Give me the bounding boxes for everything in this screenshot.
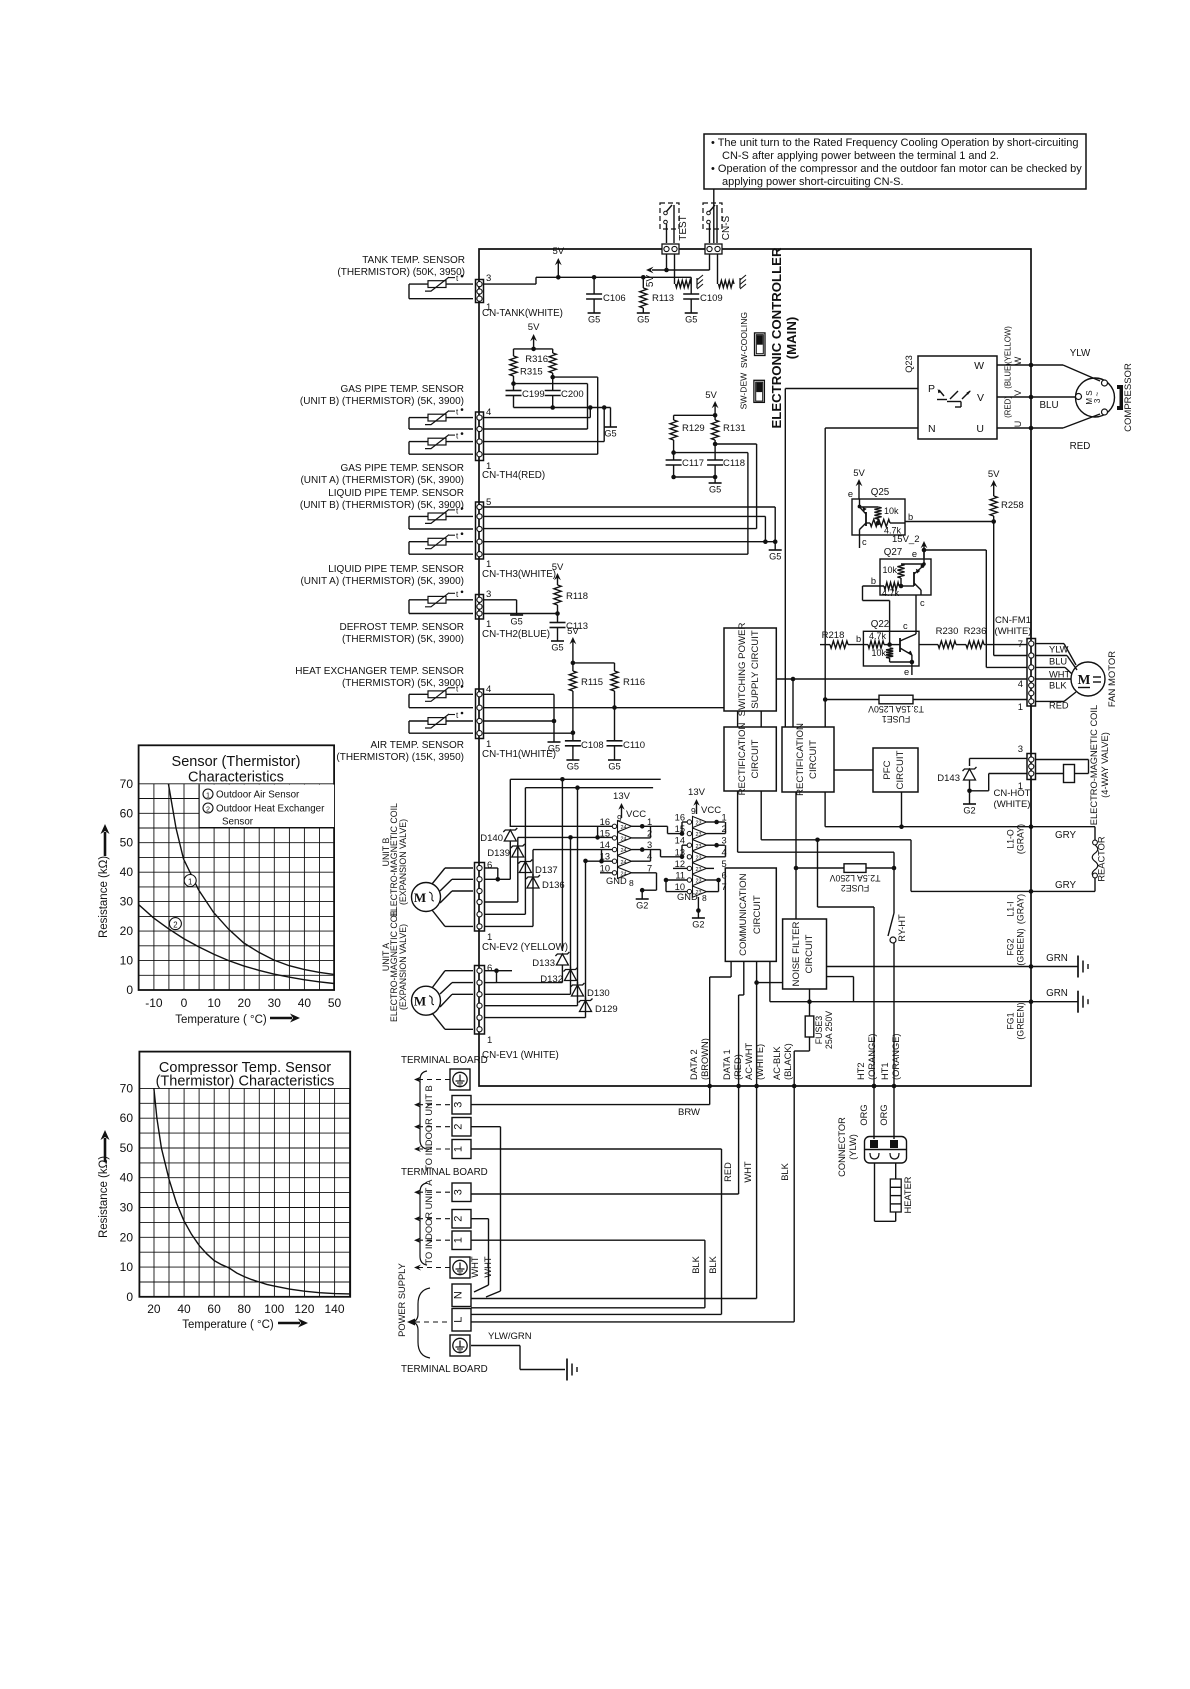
svg-text:ELECTRO-MAGNETIC COIL: ELECTRO-MAGNETIC COIL — [1089, 705, 1099, 825]
Q22 emitter stub — [890, 661, 912, 663]
IC24 outputs 1-2 tie — [632, 825, 668, 827]
svg-text:1: 1 — [453, 1237, 465, 1243]
svg-text:HT2: HT2 — [856, 1062, 866, 1080]
wire CN-TH1 pin4 and pin2 to G5 — [484, 693, 555, 695]
svg-text:23: 23 — [696, 855, 702, 861]
svg-text:-10: -10 — [145, 996, 163, 1010]
svg-text:BLU: BLU — [1049, 657, 1067, 667]
wire R316 node to CN-TH4 pin1 — [553, 376, 598, 378]
IC23 outputs 1-2 tie — [707, 821, 717, 823]
svg-text:60: 60 — [207, 1302, 221, 1316]
coil 4-way valve — [1064, 765, 1075, 783]
svg-text:40: 40 — [120, 865, 134, 879]
fuse FUSE2 — [796, 867, 844, 869]
wire communication to DATA1 — [743, 961, 745, 995]
wire CN-EV2 pin3 rail — [485, 901, 518, 903]
sensor thermistor characteristics chart frame — [139, 745, 335, 990]
svg-text:(4-WAY VALVE): (4-WAY VALVE) — [1100, 732, 1110, 798]
svg-text:(BLACK): (BLACK) — [783, 1043, 793, 1080]
wire CN-TH4 pin2 rail to ground rail — [484, 441, 605, 443]
svg-text:HT1: HT1 — [880, 1062, 890, 1080]
thermistor defrost loop — [409, 599, 473, 601]
svg-text:10: 10 — [675, 882, 685, 892]
svg-text:C118: C118 — [723, 458, 745, 469]
svg-text:DATA 2: DATA 2 — [689, 1049, 699, 1080]
svg-text:TERMINAL BOARD: TERMINAL BOARD — [401, 1055, 488, 1066]
power supply terminal N — [452, 1284, 471, 1307]
connector CN-TH3 — [476, 502, 484, 559]
svg-text:CIRCUIT: CIRCUIT — [808, 740, 819, 779]
pull-down resistor at TEST — [674, 254, 676, 284]
Q25 4.7k resistor — [870, 519, 890, 526]
svg-text:CN-HOT: CN-HOT — [994, 788, 1031, 799]
svg-text:0: 0 — [126, 983, 133, 997]
dashed leads terminal board A — [418, 1191, 450, 1193]
svg-text:TERMINAL BOARD: TERMINAL BOARD — [401, 1167, 488, 1178]
wire A terminal1 to L BLK — [471, 1239, 705, 1241]
svg-text:applying power short-circuitin: applying power short-circuiting CN-S. — [722, 176, 904, 188]
svg-text:0: 0 — [181, 996, 188, 1010]
svg-text:COMMUNICATION: COMMUNICATION — [738, 873, 749, 955]
svg-text:Sensor (Thermistor): Sensor (Thermistor) — [172, 754, 301, 770]
svg-text:(ORANGE): (ORANGE) — [867, 1034, 877, 1081]
Q22 transistor glyph — [899, 638, 901, 652]
svg-text:GRN: GRN — [1046, 953, 1068, 964]
svg-text:T3.15A L250V: T3.15A L250V — [868, 704, 924, 714]
svg-text:L1-O: L1-O — [1006, 829, 1016, 849]
thermistor liquid pipe A loop — [409, 541, 473, 543]
svg-text:FUSE2: FUSE2 — [841, 883, 869, 893]
svg-text:• Operation of the compressor: • Operation of the compressor and the ou… — [711, 163, 1082, 175]
svg-text:3: 3 — [453, 1102, 465, 1108]
svg-text:8: 8 — [702, 893, 707, 903]
compressor motor — [1076, 378, 1115, 417]
svg-text:5V: 5V — [552, 246, 564, 257]
svg-text:AC-BLK: AC-BLK — [772, 1046, 782, 1080]
svg-text:9: 9 — [691, 806, 696, 816]
svg-text:N: N — [453, 1291, 465, 1299]
capacitor C200 — [552, 377, 554, 390]
terminal board A earth terminal — [450, 1257, 470, 1278]
wire CN-TH3 pin4 rail to ground — [484, 515, 766, 517]
svg-text:C108: C108 — [581, 740, 604, 751]
svg-text:FUSE3: FUSE3 — [814, 1016, 824, 1044]
svg-text:c: c — [862, 537, 867, 547]
wire CN-TH4 pin4 rail up to ground rail — [484, 417, 591, 419]
svg-text:(THERMISTOR) (50K, 3950): (THERMISTOR) (50K, 3950) — [337, 267, 465, 278]
wire inner 13V rail — [525, 787, 653, 789]
connector CN-FM1 — [1027, 639, 1036, 707]
svg-text:G2: G2 — [636, 901, 648, 911]
svg-text:T2.5A L250V: T2.5A L250V — [829, 873, 880, 883]
svg-text:(YELLOW): (YELLOW) — [1004, 326, 1013, 364]
svg-text:Resistance (kΩ): Resistance (kΩ) — [98, 1156, 110, 1238]
svg-text:120: 120 — [294, 1302, 314, 1316]
svg-text:40: 40 — [120, 1171, 134, 1185]
junction dots on bottom edge — [707, 1084, 712, 1089]
svg-text:D143: D143 — [937, 773, 960, 784]
svg-text:(THERMISTOR) (5K, 3900): (THERMISTOR) (5K, 3900) — [342, 634, 464, 645]
CN-S switch lever — [707, 220, 711, 224]
svg-text:Sensor: Sensor — [222, 817, 254, 828]
wire 15V_2 to CN-FM1 WHT — [924, 549, 986, 551]
resistor R129 — [674, 414, 716, 416]
wire CN-TH2 pin1 rail — [484, 613, 558, 615]
svg-text:SWITCHING POWER: SWITCHING POWER — [737, 623, 748, 717]
5V arrow R115 R116 — [572, 639, 574, 663]
svg-text:TO INDOOR UNIT B: TO INDOOR UNIT B — [424, 1085, 434, 1170]
brace to indoor unit A — [420, 1183, 427, 1265]
svg-text:1: 1 — [188, 877, 192, 886]
svg-text:(RED): (RED) — [733, 1054, 743, 1080]
L1-O bus from rectification right to reactor — [824, 792, 826, 827]
power supply brace — [412, 1288, 430, 1358]
svg-text:G2: G2 — [963, 806, 975, 816]
svg-text:R131: R131 — [723, 423, 746, 434]
svg-text:R118: R118 — [566, 591, 588, 602]
svg-text:23: 23 — [696, 867, 702, 873]
svg-text:N: N — [928, 423, 936, 435]
svg-text:5V: 5V — [528, 322, 540, 333]
svg-text:CIRCUIT: CIRCUIT — [895, 750, 906, 789]
resistor R118 — [554, 585, 561, 605]
svg-text:(RED): (RED) — [1004, 396, 1013, 418]
capacitor C199 — [513, 384, 515, 391]
svg-text:WHT: WHT — [1049, 670, 1070, 680]
IC array 24 five inverter gates — [612, 824, 616, 828]
PFC circuit box — [873, 748, 918, 792]
fan motor wire BLK — [1036, 678, 1072, 680]
svg-text:HEAT EXCHANGER TEMP. SENSOR: HEAT EXCHANGER TEMP. SENSOR — [295, 666, 464, 677]
svg-text:4: 4 — [647, 852, 652, 862]
svg-text:D129: D129 — [595, 1004, 618, 1015]
svg-text:CN-TANK(WHITE): CN-TANK(WHITE) — [482, 308, 563, 319]
svg-text:CN-TH1(WHITE): CN-TH1(WHITE) — [482, 749, 556, 760]
wire right edge to bottom corner — [1030, 780, 1032, 828]
svg-text:G5: G5 — [637, 315, 649, 325]
fuse FUSE3 — [805, 1016, 814, 1037]
svg-text:5V: 5V — [552, 562, 564, 573]
svg-text:Q23: Q23 — [904, 355, 914, 373]
fan motor — [1071, 662, 1105, 696]
resistor R218 — [820, 644, 830, 646]
svg-text:BRW: BRW — [678, 1107, 700, 1118]
transistor Q25 block — [852, 499, 905, 535]
wire B terminal2 to N — [471, 1126, 501, 1128]
svg-text:SW-COOLING: SW-COOLING — [739, 312, 749, 368]
svg-text:G5: G5 — [551, 643, 563, 653]
svg-text:6: 6 — [487, 963, 492, 974]
svg-text:SW-DEW: SW-DEW — [739, 372, 749, 409]
svg-text:GAS PIPE TEMP. SENSOR: GAS PIPE TEMP. SENSOR — [340, 463, 464, 474]
ground rail of C199 C200 with G5 — [514, 407, 611, 409]
svg-text:R115: R115 — [581, 677, 603, 688]
svg-text:CIRCUIT: CIRCUIT — [752, 895, 763, 934]
wire CN-TH3 pin5 rail to ground — [484, 506, 776, 508]
svg-text:4: 4 — [1018, 679, 1023, 690]
terminal board A screws 3 2 1 — [452, 1183, 471, 1202]
svg-text:e: e — [912, 549, 917, 559]
svg-text:50: 50 — [120, 1141, 134, 1155]
wires motor A to CN-EV1 — [432, 971, 445, 988]
diode D133 — [561, 779, 563, 951]
svg-text:(GREEN): (GREEN) — [1016, 1002, 1026, 1039]
compressor chart grid — [139, 1088, 350, 1297]
svg-text:YLW: YLW — [1049, 645, 1069, 655]
svg-text:POWER SUPPLY: POWER SUPPLY — [397, 1263, 407, 1337]
wire CN-HOT pin3 to coil — [970, 757, 1028, 759]
svg-text:GRN: GRN — [1046, 988, 1068, 999]
wire rectification right to noise filter with FUSE2 tap — [795, 792, 797, 919]
wire R129 node to CN-TH3 pin1 rail — [674, 452, 748, 454]
svg-text:D136: D136 — [542, 880, 565, 891]
svg-text:0: 0 — [126, 1290, 133, 1304]
diode D140 — [509, 779, 511, 827]
wire Q25 line down to CN-FM1 BLU — [993, 522, 995, 656]
IC24 output 7 to G2 — [632, 872, 657, 874]
wire communication to DATA2 — [730, 961, 732, 977]
svg-text:FG2: FG2 — [1006, 938, 1016, 955]
svg-text:TANK TEMP. SENSOR: TANK TEMP. SENSOR — [362, 255, 465, 266]
svg-text:RED: RED — [723, 1162, 733, 1182]
svg-text:50: 50 — [328, 996, 342, 1010]
wire CN-EV1 pin6 common jog — [485, 970, 497, 972]
svg-text:(UNIT A) (THERMISTOR) (5K, 390: (UNIT A) (THERMISTOR) (5K, 3900) — [300, 576, 464, 587]
svg-text:Outdoor Heat Exchanger: Outdoor Heat Exchanger — [216, 804, 325, 815]
svg-text:Outdoor Air Sensor: Outdoor Air Sensor — [216, 790, 300, 801]
wire CN-EV2 pin2 rail — [485, 913, 526, 915]
resistor R315 — [514, 348, 534, 350]
wire IC24 out12 to IC23 in15 — [667, 826, 669, 833]
svg-text:G2: G2 — [692, 920, 704, 930]
svg-text:G5: G5 — [709, 485, 721, 495]
connector CN-TH1 — [476, 689, 484, 739]
electronic controller main board outline — [479, 249, 1031, 1086]
wires motor B to CN-EV2 — [432, 868, 445, 884]
svg-text:RECTIFICATION: RECTIFICATION — [737, 723, 748, 796]
svg-text:Characteristics: Characteristics — [188, 770, 284, 786]
svg-text:20: 20 — [120, 924, 134, 938]
svg-text:R218: R218 — [822, 630, 845, 641]
Q25 collector stub — [859, 530, 861, 549]
reactor — [1031, 826, 1095, 828]
resistor R236 — [956, 644, 966, 646]
svg-text:YLW/GRN: YLW/GRN — [488, 1331, 532, 1342]
svg-text:23: 23 — [696, 844, 702, 850]
svg-text:2: 2 — [206, 804, 210, 813]
svg-text:(YLW): (YLW) — [848, 1134, 858, 1160]
svg-text:60: 60 — [120, 1111, 134, 1125]
connector CN-TH4 — [476, 412, 484, 461]
svg-text:R116: R116 — [623, 677, 645, 688]
svg-text:BLU: BLU — [1039, 400, 1058, 411]
svg-text:GND: GND — [606, 876, 627, 886]
connector TEST 2-pin — [662, 244, 679, 254]
svg-text:3: 3 — [486, 273, 491, 284]
wire CN-TH3 pin2 rail with G5 — [484, 541, 776, 543]
svg-text:40: 40 — [177, 1302, 191, 1316]
svg-text:b: b — [908, 512, 913, 522]
wire CN-TH4 pin1 rail — [484, 453, 598, 455]
svg-text:D132: D132 — [540, 974, 563, 985]
capacitor C113 — [557, 614, 559, 623]
resistor R316 — [534, 348, 553, 350]
svg-text:5V: 5V — [988, 469, 1000, 480]
5V arrow tank rail — [556, 275, 561, 280]
connector CN-HOT — [1027, 754, 1036, 780]
diode D139 — [517, 844, 519, 903]
sensor chart grid — [139, 784, 335, 990]
svg-text:(WHITE): (WHITE) — [994, 799, 1031, 810]
resistor R131 — [712, 420, 719, 440]
svg-text:YLW: YLW — [1070, 348, 1091, 359]
wire HT2 to heater connector — [873, 1086, 875, 1139]
svg-text:16: 16 — [675, 813, 685, 823]
svg-text:C109: C109 — [700, 293, 723, 304]
svg-text:VCC: VCC — [626, 809, 646, 820]
svg-text:7: 7 — [647, 863, 652, 873]
svg-text:10k: 10k — [882, 565, 897, 575]
diode D143 — [969, 758, 971, 766]
svg-text:100: 100 — [264, 1302, 284, 1316]
diode D132 — [570, 967, 572, 995]
svg-text:WHT: WHT — [743, 1161, 753, 1182]
svg-text:30: 30 — [120, 1201, 134, 1215]
svg-text:1: 1 — [453, 1146, 465, 1152]
wire noise filter to FG1 line — [827, 976, 854, 978]
sensor chart curve 2 heat exchanger — [139, 905, 334, 984]
svg-text:16: 16 — [600, 817, 610, 827]
wire Q25 b to R258 node — [905, 521, 994, 523]
wire note box to CN-S — [713, 189, 715, 243]
svg-text:(Thermistor) Characteristics: (Thermistor) Characteristics — [156, 1074, 335, 1090]
svg-text:20: 20 — [238, 996, 252, 1010]
svg-text:D139: D139 — [487, 848, 510, 859]
svg-text:80: 80 — [238, 1302, 252, 1316]
terminal board B screws 3 2 1 — [452, 1096, 471, 1115]
svg-text:C110: C110 — [623, 740, 645, 751]
wire AC-BLK to L terminal — [793, 1086, 795, 1322]
wire AC-WHT to N terminal — [756, 1086, 758, 1299]
svg-text:(EXPANSION VALVE): (EXPANSION VALVE) — [398, 819, 408, 905]
communication circuit box — [725, 868, 776, 961]
svg-text:TEST: TEST — [678, 215, 689, 241]
capacitor C108 — [572, 733, 574, 741]
connector CN-S 2-pin — [705, 244, 722, 254]
wire HT1 to heater connector — [893, 1086, 895, 1139]
svg-text:13V: 13V — [688, 787, 706, 798]
svg-text:COMPRESSOR: COMPRESSOR — [1123, 363, 1134, 432]
curve marker 1 — [184, 875, 196, 887]
svg-text:25A 250V: 25A 250V — [824, 1011, 834, 1049]
wire IC23 out34 stub — [717, 844, 725, 846]
svg-text:LIQUID PIPE TEMP. SENSOR: LIQUID PIPE TEMP. SENSOR — [328, 564, 464, 575]
svg-text:R230: R230 — [936, 626, 959, 637]
svg-text:GAS PIPE TEMP. SENSOR: GAS PIPE TEMP. SENSOR — [340, 384, 464, 395]
svg-text:3: 3 — [647, 840, 652, 850]
svg-text:10: 10 — [120, 1260, 134, 1274]
svg-text:AC-WHT: AC-WHT — [744, 1043, 754, 1080]
dashed leads terminal board B — [418, 1079, 450, 1081]
svg-text:REACTOR: REACTOR — [1097, 836, 1107, 882]
svg-text:1: 1 — [487, 1035, 492, 1046]
svg-text:BLK: BLK — [1049, 681, 1067, 691]
svg-text:(EXPANSION VALVE): (EXPANSION VALVE) — [398, 924, 408, 1010]
svg-text:2: 2 — [647, 828, 652, 838]
svg-text:(GRAY): (GRAY) — [1016, 824, 1026, 854]
svg-text:RECTIFICATION: RECTIFICATION — [795, 723, 806, 796]
svg-text:20: 20 — [120, 1230, 134, 1244]
Q22 10k resistor — [886, 648, 893, 658]
fan motor wire BLU — [1036, 655, 1068, 657]
sensor chart curve 1 outdoor air — [168, 784, 334, 975]
svg-text:3 ~: 3 ~ — [1093, 392, 1102, 404]
wire IC24 out34 to IC23 in13 — [660, 850, 662, 857]
svg-text:5V: 5V — [853, 468, 865, 479]
svg-text:24: 24 — [621, 837, 627, 843]
svg-text:C106: C106 — [603, 293, 626, 304]
resistor R115 — [569, 671, 576, 691]
svg-text:WHT: WHT — [483, 1256, 493, 1277]
wire R131 node to CN-TH3 pin3 rail — [715, 443, 757, 445]
svg-text:10k: 10k — [871, 648, 886, 658]
svg-text:40: 40 — [298, 996, 312, 1010]
svg-text:3: 3 — [1018, 744, 1023, 755]
svg-text:70: 70 — [120, 777, 134, 791]
wire BRW to indoor B terminal 3 — [709, 1086, 711, 1105]
svg-text:3: 3 — [722, 836, 727, 846]
svg-text:D133: D133 — [532, 958, 555, 969]
fan motor wire RED — [1036, 700, 1065, 702]
capacitor C118 — [714, 444, 716, 460]
IC23 outputs 3-4 tie — [707, 844, 717, 846]
svg-text:(THERMISTOR) (5K, 3900): (THERMISTOR) (5K, 3900) — [342, 678, 464, 689]
svg-text:20: 20 — [147, 1302, 161, 1316]
svg-text:ELECTRONIC CONTROLLER: ELECTRONIC CONTROLLER — [769, 247, 784, 428]
wire FG1 to ground GRN — [769, 961, 771, 1001]
terminal board B earth terminal — [450, 1069, 470, 1090]
svg-text:12: 12 — [675, 859, 685, 869]
svg-text:24: 24 — [621, 848, 627, 854]
IC23 input ties 12-11-10 — [673, 867, 687, 869]
svg-text:TO INDOOR UNIT A: TO INDOOR UNIT A — [424, 1179, 434, 1265]
svg-text:BLK: BLK — [780, 1162, 790, 1180]
svg-text:G5: G5 — [685, 315, 697, 325]
svg-text:U: U — [976, 423, 984, 435]
svg-text:24: 24 — [621, 860, 627, 866]
svg-text:CN-TH2(BLUE): CN-TH2(BLUE) — [482, 629, 550, 640]
svg-text:11: 11 — [675, 871, 685, 881]
wires switching box to rectification box — [737, 711, 739, 727]
wire rectification right to PFC — [834, 769, 873, 771]
svg-text:U: U — [1013, 421, 1023, 428]
diode D137 — [524, 859, 526, 915]
wire Q23 N line to rectification right — [825, 427, 918, 429]
svg-text:DEFROST TEMP. SENSOR: DEFROST TEMP. SENSOR — [340, 622, 464, 633]
svg-text:(UNIT B) (THERMISTOR) (5K, 390: (UNIT B) (THERMISTOR) (5K, 3900) — [300, 500, 464, 511]
svg-text:5V: 5V — [705, 390, 717, 401]
svg-text:PFC: PFC — [882, 760, 893, 779]
svg-text:G5: G5 — [588, 315, 600, 325]
svg-text:DATA 1: DATA 1 — [722, 1049, 732, 1080]
svg-text:(GREEN): (GREEN) — [1016, 928, 1026, 965]
fan motor wire YLW — [1036, 643, 1065, 645]
svg-text:23: 23 — [696, 879, 702, 885]
svg-text:HEATER: HEATER — [903, 1176, 913, 1213]
svg-text:AIR TEMP. SENSOR: AIR TEMP. SENSOR — [370, 740, 464, 751]
svg-text:P: P — [928, 383, 935, 395]
svg-text:(GRAY): (GRAY) — [1016, 894, 1026, 924]
